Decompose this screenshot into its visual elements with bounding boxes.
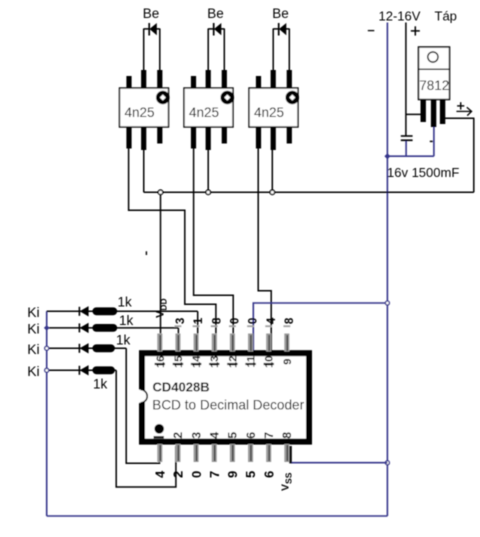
svg-text:5: 5 <box>226 432 240 439</box>
svg-text:6: 6 <box>261 471 276 478</box>
svg-text:0: 0 <box>189 471 204 478</box>
svg-text:4n25: 4n25 <box>125 105 155 120</box>
svg-text:Ki: Ki <box>27 320 39 336</box>
svg-text:1k: 1k <box>118 295 133 310</box>
svg-text:4: 4 <box>153 470 168 478</box>
svg-text:15: 15 <box>173 356 185 368</box>
svg-text:3: 3 <box>175 318 187 324</box>
svg-text:9: 9 <box>225 471 240 478</box>
svg-text:4: 4 <box>266 317 278 324</box>
svg-text:8: 8 <box>280 432 294 439</box>
svg-text:Táp: Táp <box>435 9 457 24</box>
svg-text:BCD to Decimal Decoder: BCD to Decimal Decoder <box>152 398 304 413</box>
svg-text:13: 13 <box>209 356 221 368</box>
svg-text:9: 9 <box>282 359 294 365</box>
svg-text:5: 5 <box>243 471 258 478</box>
svg-text:Be: Be <box>143 6 160 21</box>
svg-text:Be: Be <box>272 6 289 21</box>
svg-text:6: 6 <box>244 432 258 439</box>
svg-text:2: 2 <box>171 471 186 478</box>
svg-text:16v 1500mF: 16v 1500mF <box>387 165 459 180</box>
svg-text:1k: 1k <box>116 333 131 348</box>
svg-text:Ki: Ki <box>27 304 39 320</box>
svg-text:Ki: Ki <box>27 363 39 379</box>
svg-text:1k: 1k <box>119 313 134 328</box>
svg-text:CD4028B: CD4028B <box>153 380 210 395</box>
svg-text:1k: 1k <box>93 377 108 392</box>
svg-text:0: 0 <box>248 318 260 324</box>
svg-text:14: 14 <box>191 355 203 368</box>
svg-text:10: 10 <box>264 356 276 368</box>
svg-text:12-16V: 12-16V <box>379 9 421 24</box>
svg-text:7: 7 <box>262 432 276 439</box>
svg-text:0: 0 <box>230 318 242 324</box>
svg-text:16: 16 <box>155 356 167 368</box>
svg-text:8: 8 <box>284 317 296 324</box>
svg-text:11: 11 <box>246 356 258 368</box>
svg-text:Ki: Ki <box>27 341 39 357</box>
svg-text:2: 2 <box>171 432 185 439</box>
svg-text:12: 12 <box>227 356 239 368</box>
svg-text:7: 7 <box>207 471 222 478</box>
svg-text:1: 1 <box>193 317 205 324</box>
svg-text:3: 3 <box>189 432 203 439</box>
svg-text:7812: 7812 <box>419 78 449 93</box>
svg-text:8: 8 <box>211 317 223 324</box>
svg-text:4n25: 4n25 <box>189 105 219 120</box>
svg-text:Be: Be <box>207 6 224 21</box>
svg-text:4n25: 4n25 <box>254 105 284 120</box>
svg-text:4: 4 <box>208 432 222 439</box>
